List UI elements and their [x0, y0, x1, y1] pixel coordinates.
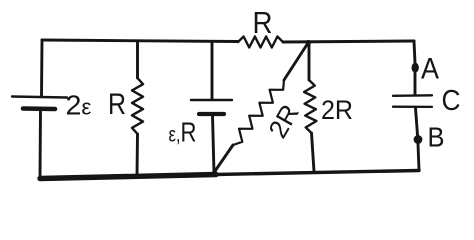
- svg-text:ε,R: ε,R: [169, 117, 197, 148]
- svg-text:C: C: [442, 85, 461, 117]
- svg-text:R: R: [253, 5, 273, 40]
- svg-text:2R: 2R: [321, 95, 353, 125]
- svg-text:2R: 2R: [262, 99, 305, 143]
- svg-text:B: B: [428, 122, 445, 153]
- svg-text:A: A: [421, 53, 439, 86]
- svg-text:R: R: [108, 88, 126, 121]
- svg-text:2ε: 2ε: [66, 90, 92, 121]
